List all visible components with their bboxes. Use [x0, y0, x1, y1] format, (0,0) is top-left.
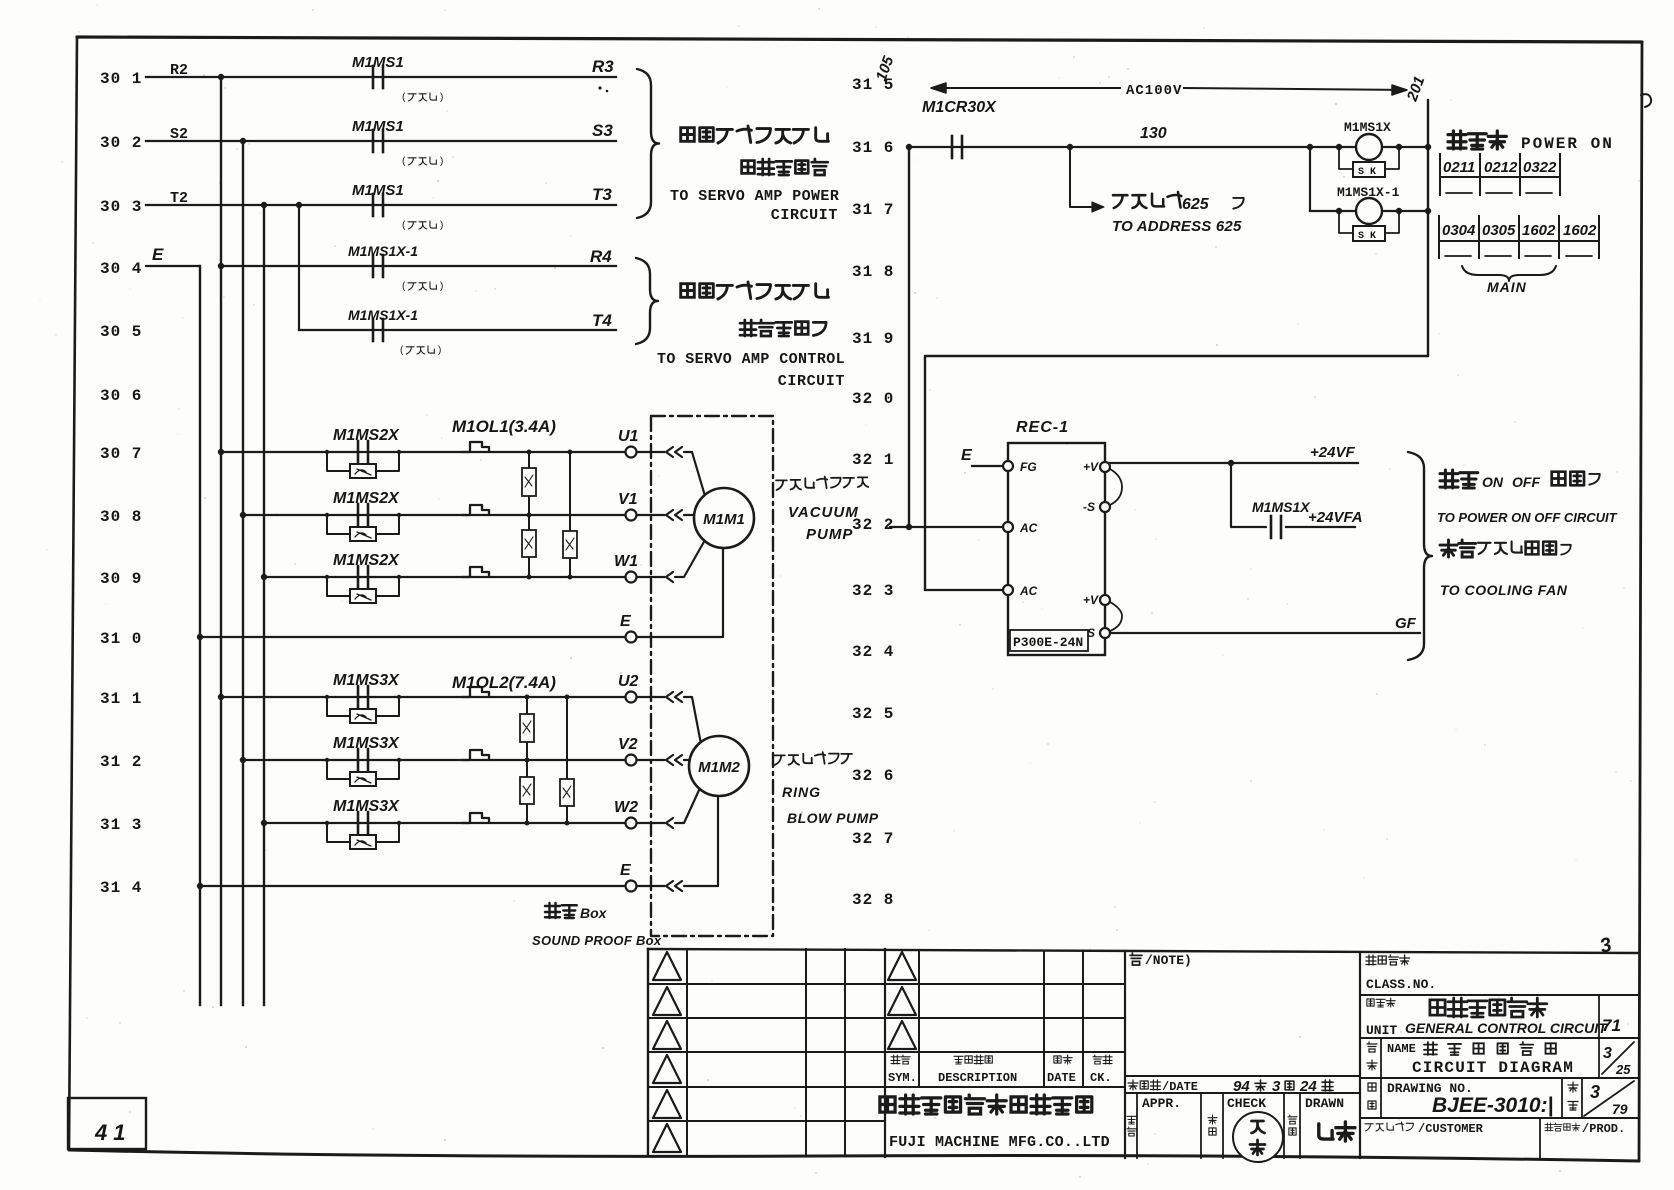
svg-text:): ): [440, 156, 443, 167]
note POWER ON japanese: [1448, 131, 1506, 149]
junction rung/bus: [240, 757, 246, 763]
wire rung 305: [299, 329, 616, 331]
svg-text:+24VF: +24VF: [1310, 444, 1355, 461]
title block middle table: [918, 951, 920, 1087]
svg-text:OFF: OFF: [1512, 474, 1540, 490]
svg-text:32 8: 32 8: [852, 891, 894, 909]
terminal E2: [626, 881, 637, 892]
surge killer SK parallel: [327, 823, 350, 842]
junction +24V: [1228, 460, 1234, 466]
svg-text:32 1: 32 1: [852, 451, 894, 469]
note cooling fan japanese: [1440, 540, 1476, 557]
svg-text:CIRCUIT DIAGRAM: CIRCUIT DIAGRAM: [1412, 1059, 1574, 1077]
svg-text:MAIN: MAIN: [1487, 279, 1527, 295]
wire rung 313: [264, 822, 626, 824]
svg-text:71: 71: [1602, 1016, 1621, 1035]
surge killer SK coil1: [1339, 147, 1356, 169]
unit row: [1360, 1037, 1639, 1039]
svg-text:S2: S2: [170, 126, 188, 143]
svg-text:32 7: 32 7: [852, 830, 894, 848]
svg-text:M1MS1X-1: M1MS1X-1: [348, 307, 418, 323]
svg-text:DATE: DATE: [1047, 1071, 1076, 1085]
svg-text:24: 24: [1299, 1078, 1317, 1095]
svg-text:30 5: 30 5: [100, 323, 142, 341]
sound proof box dash-dot enclosure: [651, 416, 773, 936]
wire return 319: [925, 356, 1428, 590]
junction rung314/bus E: [197, 883, 203, 889]
svg-text:+V: +V: [1083, 593, 1099, 607]
label DATE row: [1128, 1080, 1160, 1090]
svg-text:GENERAL CONTROL CIRCUIT: GENERAL CONTROL CIRCUIT: [1405, 1020, 1608, 1036]
contact M1MS1X aux: [1270, 516, 1273, 538]
wire rung 309: [264, 576, 626, 578]
svg-text:E: E: [961, 447, 973, 464]
brace servo amp control group: [636, 258, 658, 344]
header CK: [1093, 1055, 1112, 1064]
svg-text:31 2: 31 2: [100, 753, 142, 771]
svg-text:M1MS1X: M1MS1X: [1252, 499, 1311, 515]
svg-text:AC100V: AC100V: [1126, 83, 1182, 99]
customer row: [1365, 1122, 1413, 1131]
surge killer SK parallel: [327, 452, 350, 471]
note box: [1359, 953, 1361, 1158]
note sound proof box japanese: [545, 903, 577, 918]
svg-text:RING: RING: [782, 784, 821, 800]
motor M1M1: [694, 488, 754, 548]
address table power on row2: [1438, 216, 1440, 258]
wire branch +24VFA: [1231, 463, 1266, 527]
wire +V output: [1110, 462, 1358, 464]
svg-text:M1MS2X: M1MS2X: [333, 552, 400, 569]
svg-text:REC-1: REC-1: [1016, 419, 1069, 436]
wire V1 to motor: [637, 514, 664, 516]
svg-text:T2: T2: [170, 190, 188, 207]
contact M1MS2X: [357, 566, 360, 588]
wire 323 to AC2: [925, 589, 1003, 591]
svg-text:GF: GF: [1395, 615, 1417, 632]
svg-text:M1MS3X: M1MS3X: [333, 798, 400, 815]
bus E ground: [199, 266, 201, 1005]
svg-text:V2: V2: [618, 736, 638, 753]
svg-text:30 7: 30 7: [100, 445, 142, 463]
svg-text:M1MS2X: M1MS2X: [333, 427, 400, 444]
interconnect A motor1: [528, 452, 530, 577]
wire rung 307: [221, 451, 626, 453]
wire rung 317 feed: [1309, 147, 1311, 211]
svg-text:TO ADDRESS 625: TO ADDRESS 625: [1112, 218, 1242, 235]
bus right vertical 1428: [1427, 100, 1429, 356]
svg-text:0211: 0211: [1443, 159, 1475, 176]
pin +V top: [1100, 462, 1110, 472]
svg-text:32 3: 32 3: [852, 582, 894, 600]
svg-text:POWER ON: POWER ON: [1521, 135, 1614, 153]
overload element M1OL2: [462, 687, 489, 697]
svg-text:0304: 0304: [1442, 222, 1476, 239]
coil M1MS1X-1: [1336, 208, 1342, 214]
wire U2 to motor: [637, 696, 664, 698]
label NOTE: [1130, 953, 1142, 965]
wire rung 302 S2 to S3: [146, 140, 616, 142]
svg-text:30 3: 30 3: [100, 198, 142, 216]
contact M1MS2X: [357, 504, 360, 526]
surge killer SK parallel: [327, 697, 350, 716]
overload element M1OL2: [462, 750, 489, 760]
svg-text:30 4: 30 4: [100, 260, 142, 278]
name kanji spaced: [1424, 1042, 1556, 1055]
pin -S top: [1100, 502, 1110, 512]
bus S phase: [242, 141, 244, 1005]
svg-text:31 1: 31 1: [100, 690, 142, 708]
svg-text:W2: W2: [614, 799, 638, 816]
junction rung/bus: [218, 449, 224, 455]
wire V2 to motor: [637, 759, 664, 761]
stamp circle yamaki: [1233, 1112, 1283, 1162]
sense loop bottom: [1110, 602, 1122, 631]
svg-text:DRAWN: DRAWN: [1305, 1096, 1344, 1111]
page 3/79: [1584, 1081, 1634, 1116]
svg-text:BLOW PUMP: BLOW PUMP: [787, 810, 879, 826]
svg-text:/NOTE): /NOTE): [1145, 953, 1192, 968]
contact M1MS1X-1 rung 305: [372, 319, 375, 341]
svg-text:UNIT: UNIT: [1366, 1023, 1397, 1038]
terminal V1: [626, 510, 637, 521]
svg-text:): ): [438, 345, 441, 356]
header DATE: [1054, 1055, 1072, 1064]
surge killer SK parallel: [327, 760, 350, 779]
svg-text:79: 79: [1612, 1101, 1628, 1117]
wire rung 310 E: [200, 636, 626, 638]
svg-text:/CUSTOMER: /CUSTOMER: [1418, 1122, 1484, 1136]
svg-text:31 9: 31 9: [852, 330, 894, 348]
svg-text:E: E: [620, 613, 632, 630]
wire E2 to motor: [637, 885, 664, 887]
svg-text:1602: 1602: [1563, 222, 1597, 239]
svg-text:TO SERVO AMP POWER: TO SERVO AMP POWER: [670, 188, 839, 205]
junction rung310/bus E: [197, 634, 203, 640]
terminal U2: [626, 692, 637, 703]
note servo amp control japanese: [681, 282, 829, 299]
svg-text:3: 3: [1603, 1045, 1612, 1062]
contact M1MS3X: [357, 749, 360, 771]
surge killer SK parallel: [327, 577, 350, 596]
svg-text:CLASS.NO.: CLASS.NO.: [1366, 977, 1436, 992]
svg-text:94: 94: [1233, 1078, 1250, 1095]
svg-text:32 5: 32 5: [852, 705, 894, 723]
contact M1MS1X-1 rung 304: [372, 255, 375, 277]
svg-text:30 2: 30 2: [100, 134, 142, 152]
svg-text:TO COOLING FAN: TO COOLING FAN: [1440, 582, 1568, 598]
header SYM: [891, 1055, 910, 1064]
svg-text:R2: R2: [170, 62, 188, 79]
pin +V bottom: [1100, 595, 1110, 605]
wire W1 to motor: [637, 576, 664, 578]
svg-text:CIRCUIT: CIRCUIT: [771, 207, 838, 224]
contact M1CR30X: [951, 136, 954, 158]
svg-text:30 9: 30 9: [100, 570, 142, 588]
contact M1MS2X: [357, 441, 360, 463]
svg-text:T4: T4: [592, 311, 612, 330]
wire rung 308: [243, 514, 626, 516]
svg-text:31 6: 31 6: [852, 139, 894, 157]
svg-text:S K: S K: [1358, 231, 1376, 242]
svg-text:R4: R4: [590, 247, 612, 266]
svg-text:0322: 0322: [1523, 159, 1557, 176]
drawing no row: [1360, 1117, 1639, 1119]
svg-text:P300E-24N: P300E-24N: [1013, 635, 1083, 650]
wire 322 to AC1: [890, 526, 1003, 528]
junction rung/bus: [218, 694, 224, 700]
junction rung303/branch: [296, 202, 302, 208]
date row line: [1125, 1075, 1360, 1077]
svg-text:3: 3: [1590, 1082, 1600, 1102]
svg-text:DESCRIPTION: DESCRIPTION: [938, 1071, 1017, 1085]
pin FG: [1003, 461, 1013, 471]
surge killer SK parallel: [327, 515, 350, 534]
contact M1MS3X: [357, 686, 360, 708]
header DESCRIPTION: [954, 1055, 992, 1064]
svg-text:32 6: 32 6: [852, 767, 894, 785]
svg-text:E: E: [152, 245, 164, 264]
drawn by esaka handwritten: [1319, 1122, 1355, 1141]
contact M1MS1 rung 303: [372, 194, 375, 216]
overload element M1OL1: [462, 505, 489, 515]
junction rung302/bus S: [240, 138, 246, 144]
bus left vertical 909: [908, 147, 910, 527]
approval cells: [1136, 1093, 1138, 1158]
wire rung 311: [221, 696, 626, 698]
svg-text:32 4: 32 4: [852, 643, 894, 661]
svg-text:AC: AC: [1019, 584, 1038, 598]
svg-text:31 0: 31 0: [100, 630, 142, 648]
svg-text:41: 41: [94, 1120, 131, 1145]
title block top edge: [648, 949, 1639, 953]
svg-text:S K: S K: [1358, 167, 1376, 178]
svg-text:NAME: NAME: [1387, 1042, 1416, 1056]
overload element M1OL1: [462, 567, 489, 577]
wire to address 625: [1067, 144, 1073, 150]
coil M1MS1X: [1307, 144, 1313, 150]
handwritten page mark top right: [1641, 94, 1651, 107]
svg-text:31 7: 31 7: [852, 201, 894, 219]
bus R phase: [220, 77, 222, 1005]
junction rung/bus: [261, 820, 267, 826]
interconnect B motor2: [566, 697, 568, 823]
revision triangles column2: [888, 952, 916, 980]
svg-text:APPR.: APPR.: [1142, 1096, 1181, 1111]
vertical kanji approval: [1127, 1116, 1136, 1124]
pin -S bottom: [1100, 628, 1110, 638]
svg-text:M1OL1(3.4A): M1OL1(3.4A): [452, 417, 556, 436]
wire GF output: [1110, 632, 1420, 634]
wire W2 to motor: [637, 822, 664, 824]
brace power onoff circuit: [1408, 452, 1432, 660]
svg-text:-S: -S: [1083, 500, 1095, 514]
wire rung 314 E: [200, 885, 626, 887]
svg-text:M1MS3X: M1MS3X: [333, 735, 400, 752]
svg-text:CK.: CK.: [1090, 1071, 1112, 1085]
svg-text:ON: ON: [1482, 474, 1504, 490]
svg-text:W1: W1: [614, 553, 638, 570]
svg-text:): ): [440, 92, 443, 103]
overload element M1OL1: [462, 442, 489, 452]
svg-text:M1MS1: M1MS1: [352, 54, 404, 71]
svg-text:1602: 1602: [1522, 222, 1556, 239]
svg-text:TO POWER ON OFF CIRCUIT: TO POWER ON OFF CIRCUIT: [1437, 510, 1618, 525]
svg-text:3: 3: [1272, 1078, 1281, 1095]
svg-text:625: 625: [1182, 196, 1210, 213]
interconnect B motor1: [569, 452, 571, 577]
bus T phase: [263, 205, 265, 1005]
contact M1MS3X: [357, 812, 360, 834]
svg-text:CHECK: CHECK: [1227, 1096, 1266, 1111]
terminal W1: [626, 572, 637, 583]
junction rung/bus: [261, 574, 267, 580]
label P300E-24N: [1010, 630, 1088, 651]
svg-text:CIRCUIT: CIRCUIT: [778, 373, 845, 390]
svg-text:+V: +V: [1083, 460, 1099, 474]
svg-text:M1MS1: M1MS1: [352, 118, 404, 135]
svg-text:AC: AC: [1019, 521, 1038, 535]
motor M1M2: [689, 736, 749, 796]
svg-text:R3: R3: [592, 57, 614, 76]
svg-text:+24VFA: +24VFA: [1308, 509, 1363, 526]
svg-text:M1MS1X: M1MS1X: [1344, 120, 1391, 135]
wire U1 to motor: [637, 451, 664, 453]
wire E1 to motor: [637, 548, 723, 637]
wire E entry rung 304: [146, 265, 200, 267]
svg-text:30 8: 30 8: [100, 508, 142, 526]
wire rung 301 R2 to R3: [146, 76, 616, 78]
svg-text:/PROD.: /PROD.: [1582, 1122, 1625, 1136]
terminal U1: [626, 447, 637, 458]
junction rung/bus: [240, 512, 246, 518]
svg-text:M1CR30X: M1CR30X: [922, 99, 997, 116]
brace MAIN: [1462, 266, 1556, 281]
svg-text:25: 25: [1615, 1062, 1631, 1077]
svg-text:U1: U1: [618, 428, 639, 445]
junction rung304/bus R: [218, 263, 224, 269]
class no row: [1360, 994, 1639, 996]
wire rung 316: [909, 146, 1428, 148]
contact M1MS1 rung 302: [372, 130, 375, 152]
svg-text:30 6: 30 6: [100, 387, 142, 405]
rectifier REC-1 box: [1008, 443, 1105, 655]
svg-text:VACUUM: VACUUM: [788, 504, 859, 521]
revision triangles column1: [653, 952, 681, 980]
title block left table: [647, 949, 649, 1155]
pin AC1: [1003, 522, 1013, 532]
terminal E1: [626, 632, 637, 643]
svg-text:/DATE: /DATE: [1162, 1080, 1198, 1094]
junction rung301/bus R: [218, 74, 224, 80]
svg-text:M1MS1: M1MS1: [352, 182, 404, 199]
svg-text:BJEE-3010:|: BJEE-3010:|: [1432, 1094, 1553, 1117]
svg-text:0305: 0305: [1482, 222, 1516, 239]
note power on off circuit japanese: [1440, 470, 1478, 488]
wire rung 304: [221, 265, 616, 267]
drawing border frame: [77, 37, 1642, 42]
interconnect A motor2: [526, 697, 528, 823]
svg-text:31 4: 31 4: [100, 879, 142, 897]
brace servo amp power group: [637, 69, 659, 218]
svg-text:E: E: [620, 862, 632, 879]
note address 625 japanese: [1113, 192, 1181, 208]
svg-text:M1MS3X: M1MS3X: [333, 672, 400, 689]
svg-text:M1MS1X-1: M1MS1X-1: [1337, 185, 1400, 200]
svg-text:T3: T3: [592, 185, 612, 204]
svg-text:): ): [440, 281, 443, 292]
terminal V2: [626, 755, 637, 766]
note ring blow pump japanese: [774, 752, 852, 765]
pin AC2: [1003, 585, 1013, 595]
wire E to FG: [972, 465, 1003, 467]
svg-text:V1: V1: [618, 491, 638, 508]
name row: [1360, 1077, 1639, 1079]
svg-text:TO SERVO AMP CONTROL: TO SERVO AMP CONTROL: [657, 351, 845, 368]
wire rung 312: [243, 759, 626, 761]
svg-text:30 1: 30 1: [100, 70, 142, 88]
note servo amp power japanese: [681, 126, 829, 143]
svg-text:SOUND PROOF Box: SOUND PROOF Box: [532, 933, 662, 948]
overload element M1OL2: [462, 813, 489, 823]
svg-text:M1MS2X: M1MS2X: [333, 490, 400, 507]
svg-text:130: 130: [1140, 125, 1167, 142]
surge killer SK coil2: [1339, 211, 1356, 233]
svg-text:0212: 0212: [1484, 159, 1518, 176]
junction rung303/bus T: [261, 202, 267, 208]
note vacuum pump japanese: [776, 477, 868, 491]
svg-text:): ): [440, 220, 443, 231]
handwritten unit name japanese: [1430, 998, 1547, 1017]
svg-text:PUMP: PUMP: [806, 526, 853, 543]
sense loop top: [1110, 469, 1122, 505]
terminal W2: [626, 818, 637, 829]
svg-text:SYM.: SYM.: [888, 1071, 917, 1085]
page 3/25: [1602, 1042, 1634, 1074]
svg-text:M1OL2(7.4A): M1OL2(7.4A): [452, 673, 556, 692]
svg-text:M1M1: M1M1: [703, 511, 745, 528]
svg-text:Box: Box: [580, 905, 608, 921]
company name japanese: [880, 1095, 1092, 1114]
svg-text:FUJI MACHINE MFG.CO..LTD: FUJI MACHINE MFG.CO..LTD: [889, 1134, 1110, 1151]
svg-text:M1M2: M1M2: [698, 759, 740, 776]
address table power on row1: [1439, 154, 1441, 195]
svg-text:31 8: 31 8: [852, 263, 894, 281]
svg-text:S3: S3: [592, 121, 613, 140]
bottom left page box: [68, 1098, 146, 1149]
wire rung 317: [1310, 210, 1428, 212]
svg-text:FG: FG: [1020, 460, 1037, 474]
svg-text:32 0: 32 0: [852, 390, 894, 408]
bus T branch to rung 305: [298, 205, 300, 330]
svg-text:U2: U2: [618, 673, 639, 690]
AC100V span arrow: [932, 87, 1120, 89]
contact M1MS1 rung 301: [372, 66, 375, 88]
wire rung 303 T2 to T3: [146, 204, 616, 206]
svg-text:M1MS1X-1: M1MS1X-1: [348, 243, 418, 259]
svg-text:31 3: 31 3: [100, 816, 142, 834]
